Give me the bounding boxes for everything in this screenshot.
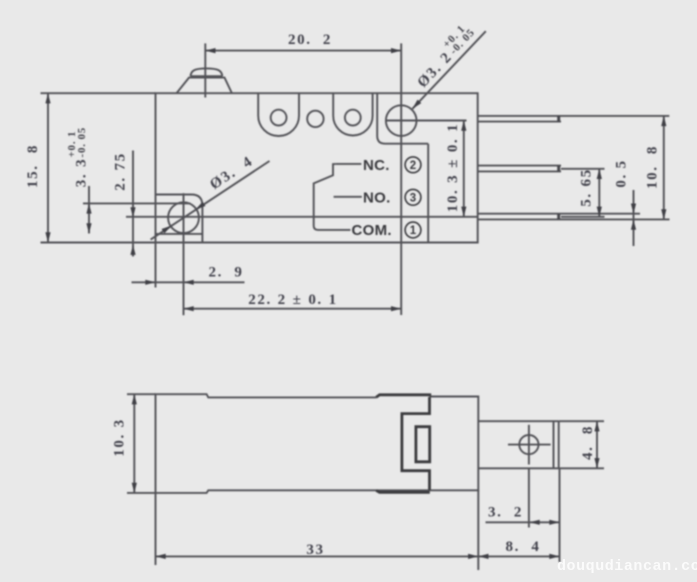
8.4 arrows: [478, 554, 488, 559]
terminal block outer end line: [558, 421, 560, 468]
dim line 2.9: [132, 281, 245, 283]
small hole center top: [307, 111, 323, 127]
svg-text:2. 75: 2. 75: [113, 152, 129, 191]
svg-text:15. 8: 15. 8: [25, 144, 41, 188]
ext line hole top for 3.3: [83, 202, 191, 204]
dim line 10.3 bottom view: [133, 394, 135, 493]
long center extension line through 3.2 hole: [400, 43, 402, 315]
dim line 0.5: [633, 190, 635, 246]
svg-text:3. 3: 3. 3: [74, 158, 90, 187]
hole in U1: [271, 110, 287, 126]
pin end ticks: [557, 116, 560, 219]
dim line 22.2: [184, 308, 402, 310]
terminal column separator: [427, 144, 429, 243]
dia3.2 leader arrow: [411, 100, 422, 111]
svg-text:1: 1: [410, 225, 417, 237]
svg-text:3. 2: 3. 2: [488, 505, 523, 521]
hole in U2: [345, 110, 361, 126]
svg-text:8. 4: 8. 4: [506, 539, 541, 555]
svg-text:3: 3: [410, 192, 416, 204]
ext line bottom of body for 15.8: [41, 242, 156, 244]
2.9 arrows: [145, 280, 155, 285]
crosshair horizontal of 3.2 hole / ext for 10.3: [386, 120, 467, 122]
0.5 arrows: [631, 204, 636, 214]
terminal block top edge: [478, 420, 558, 422]
ext line top of body for 15.8: [41, 92, 156, 94]
ext top for 4.8: [559, 420, 604, 422]
plunger dome: [191, 68, 223, 76]
10.3 arrows: [461, 121, 466, 131]
watermark: [557, 558, 697, 575]
dim line 3.2: [486, 521, 560, 523]
ext top for 10.3 bottom view: [127, 393, 156, 395]
terminal hole crosshair h: [508, 444, 551, 446]
text dia 3.2 with tolerance rotated: [410, 20, 479, 91]
svg-text:2: 2: [410, 160, 416, 172]
vertical center extension through 3.4 hole: [183, 193, 185, 315]
mounting hole 3.2 top right: [386, 105, 417, 136]
terminal hole center ext for 3.2: [528, 468, 530, 527]
terminal hole: [519, 435, 538, 454]
svg-text:22. 2 ± 0. 1: 22. 2 ± 0. 1: [248, 292, 337, 308]
mounting pocket U1: [258, 94, 299, 137]
latch window: [416, 427, 430, 462]
thick latch group bottom view: [376, 395, 430, 493]
bottom tab: [376, 490, 430, 492]
switch lever symbol: [314, 164, 351, 230]
svg-text:4. 8: 4. 8: [580, 425, 596, 460]
5.65 arrows: [597, 169, 602, 179]
ext middle for 33 / 8.4: [477, 490, 479, 570]
svg-text:0. 5: 0. 5: [614, 159, 630, 187]
terminal block inner end line: [553, 421, 555, 468]
terminal block bottom edge: [478, 467, 558, 469]
svg-text:33: 33: [306, 542, 324, 558]
mounting hole 3.4: [168, 202, 199, 233]
svg-text:NC.: NC.: [363, 157, 390, 174]
switch body (top view): [156, 93, 478, 242]
plunger cap base line: [191, 75, 223, 77]
bottom view body outline: [156, 394, 479, 493]
dim line 3.3: [88, 186, 90, 234]
3.3 arrows: [86, 203, 91, 213]
NC contact lead: [336, 163, 362, 165]
terminal pin 3 bottom edge: [478, 170, 561, 172]
pin 3 ext for 5.65: [561, 168, 605, 170]
22.2 arrows: [184, 306, 194, 311]
NO contact lead: [334, 196, 362, 198]
leader line for dia 3.4: [151, 161, 270, 240]
svg-text:Ø3. 4: Ø3. 4: [207, 153, 256, 193]
circled terminal number 3: [405, 189, 421, 205]
plunger base trapezoid: [177, 78, 232, 93]
leader line for dia 3.2: [412, 31, 485, 109]
terminal pin 1 bottom edge + ext for 10.8: [478, 218, 670, 220]
text 3.3 with tolerance rotated: [66, 127, 90, 187]
svg-text:20. 2: 20. 2: [288, 32, 332, 48]
15.8 arrows: [45, 93, 50, 103]
body left edge extension down: [155, 243, 157, 288]
dim line 4.8: [596, 421, 598, 468]
terminal pin 1 top edge + ext for 0.5: [478, 213, 640, 215]
dim line 5.65: [598, 169, 600, 217]
dim line 10.8: [663, 116, 665, 219]
arrowheads: [45, 48, 666, 559]
bottom-left pocket floor line: [156, 233, 203, 235]
ext left for 33: [155, 493, 157, 565]
dim line 10.3+-0.1: [463, 121, 465, 217]
terminal pin 3 top edge: [478, 165, 561, 167]
dia3.4 leader arrows: [162, 223, 173, 233]
dim line 15.8: [47, 93, 49, 242]
10.3 bottom view arrows: [132, 394, 137, 404]
internal horizontal line: [126, 216, 478, 218]
internal horizontal ext to 5.65 dim: [561, 216, 605, 218]
2.75 arrows: [130, 207, 135, 217]
dim line 2.75: [132, 151, 134, 257]
33 arrows: [156, 554, 166, 559]
top tab: [376, 395, 430, 398]
svg-text:2. 9: 2. 9: [209, 265, 244, 281]
ext line plunger center for 20.2: [204, 43, 206, 97]
svg-text:COM.: COM.: [352, 222, 392, 239]
bottom-left pocket: [156, 195, 203, 243]
mounting pocket U2: [333, 94, 372, 136]
dim line 33 and 8.4: [156, 555, 560, 557]
terminal hole crosshair v: [528, 425, 530, 465]
10.8 arrows: [661, 116, 666, 126]
dim line 20.2: [205, 50, 401, 52]
svg-text:5. 65: 5. 65: [579, 168, 595, 207]
top-right pad outline: [377, 93, 428, 144]
svg-text:10. 8: 10. 8: [645, 145, 661, 189]
ext bottom for 10.3 bottom view: [127, 492, 156, 494]
4.8 arrows: [594, 421, 599, 431]
terminal pin 2 top edge + ext for 10.8: [478, 115, 670, 117]
circled terminal number 2: [405, 157, 421, 173]
3.2 arrows: [530, 520, 540, 525]
circled terminal number 1: [405, 222, 421, 238]
svg-text:NO.: NO.: [363, 189, 391, 206]
svg-text:10. 3 ± 0. 1: 10. 3 ± 0. 1: [445, 123, 461, 212]
ext right for 8.4 / 3.2: [559, 468, 561, 562]
ext bottom for 4.8: [559, 467, 604, 469]
latch C shape: [402, 397, 430, 490]
svg-text:10. 3: 10. 3: [112, 418, 128, 457]
terminal pin 2 bottom edge: [478, 121, 561, 123]
svg-text:-0. 05: -0. 05: [76, 127, 88, 158]
20.2 arrows: [205, 48, 215, 53]
